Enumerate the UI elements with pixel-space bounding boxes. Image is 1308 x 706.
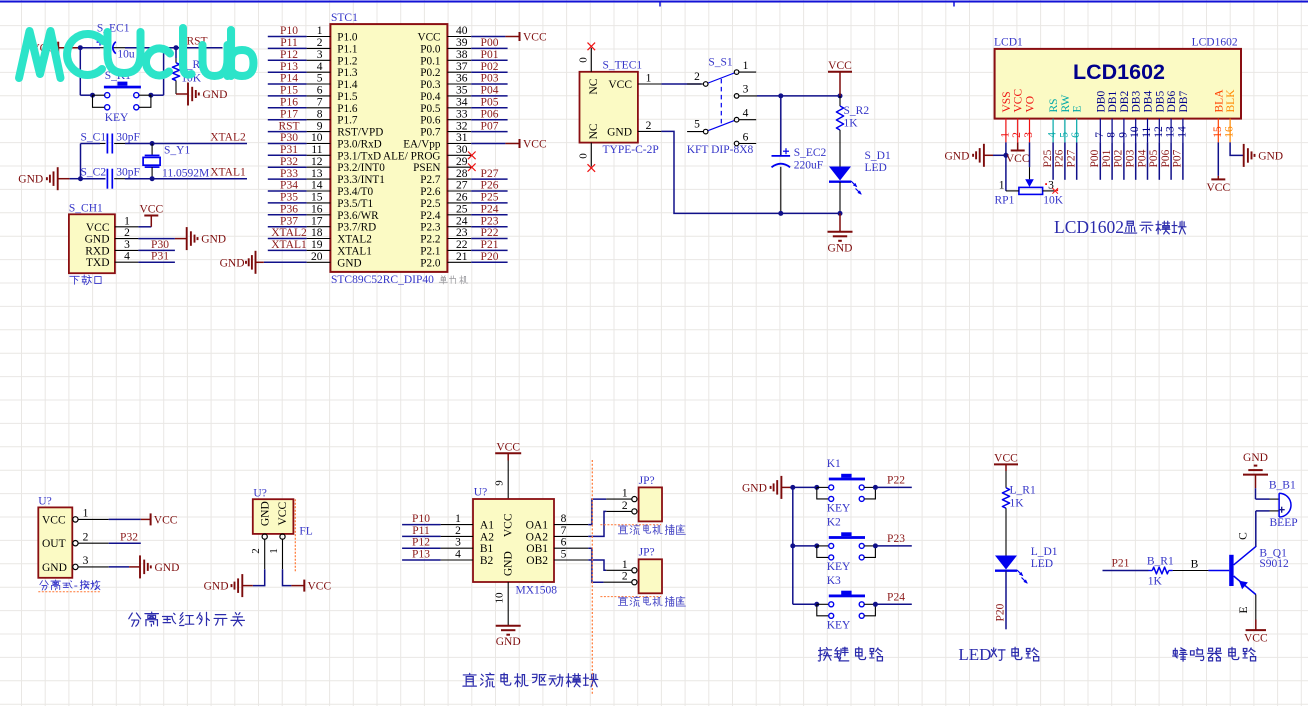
power VCC (FL) <box>283 569 292 585</box>
svg-text:FL: FL <box>299 526 312 538</box>
svg-text:RP1: RP1 <box>995 195 1015 207</box>
svg-text:13: 13 <box>311 168 323 180</box>
svg-text:P2.7: P2.7 <box>420 174 441 186</box>
svg-text:LED: LED <box>958 645 991 664</box>
power VCC (IR) <box>109 518 141 520</box>
svg-text:DB4: DB4 <box>1143 91 1155 113</box>
svg-text:LED: LED <box>1031 558 1053 570</box>
svg-text:6: 6 <box>561 537 567 549</box>
pin 18 STC1 XTAL2 <box>307 238 331 240</box>
ground (STC1 pin20) <box>264 261 307 263</box>
svg-text:VCC: VCC <box>308 581 332 593</box>
svg-text:VCC: VCC <box>523 32 547 44</box>
svg-text:40: 40 <box>456 25 468 37</box>
svg-text:U?: U? <box>253 487 266 499</box>
pin 38 STC1 P0.1 <box>447 59 471 61</box>
svg-text:11.0592M: 11.0592M <box>162 168 209 180</box>
svg-text:P0.6: P0.6 <box>420 115 441 127</box>
svg-text:L_D1: L_D1 <box>1031 546 1058 558</box>
svg-text:S_TEC1: S_TEC1 <box>603 60 643 72</box>
svg-text:BLA: BLA <box>1213 89 1225 113</box>
wire net P23 <box>875 545 911 547</box>
svg-text:BLK: BLK <box>1225 89 1237 113</box>
pin 6 wire S_S1 <box>739 143 756 145</box>
wire net P23 <box>471 226 507 228</box>
svg-text:4: 4 <box>455 549 461 561</box>
svg-text:P2.5: P2.5 <box>420 198 441 210</box>
svg-text:5: 5 <box>694 119 700 131</box>
svg-text:P0.0: P0.0 <box>420 43 441 55</box>
wire net P13 <box>268 71 307 73</box>
pin 6 MX1508 <box>554 547 588 549</box>
svg-text:P36: P36 <box>280 204 298 216</box>
svg-text:1: 1 <box>317 25 323 37</box>
svg-text:P05: P05 <box>1148 149 1160 167</box>
svg-text:GND: GND <box>18 174 43 186</box>
svg-text:P1.4: P1.4 <box>337 79 358 91</box>
svg-text:10u: 10u <box>117 49 134 61</box>
pin 22 STC1 P2.1 <box>447 249 471 251</box>
svg-text:P3.5/T1: P3.5/T1 <box>337 198 373 210</box>
svg-text:2: 2 <box>455 525 461 537</box>
svg-text:10K: 10K <box>1043 195 1064 207</box>
svg-text:VCC: VCC <box>1013 89 1025 113</box>
svg-text:P03: P03 <box>1125 149 1137 167</box>
svg-text:31: 31 <box>456 132 468 144</box>
wire TEC1 to switch <box>661 83 701 85</box>
caption motor driver module <box>463 673 476 686</box>
svg-text:NC: NC <box>588 123 600 139</box>
wire OA2 to JP1-2 <box>588 511 606 536</box>
wire P03 <box>1135 142 1137 179</box>
junction VSS <box>1003 153 1008 158</box>
diode S_D1 LED <box>829 167 851 181</box>
wire net P10 <box>268 36 307 38</box>
svg-text:P24: P24 <box>481 204 499 216</box>
push button S_K1 KEY <box>104 86 141 89</box>
junction cap bottom <box>778 211 783 216</box>
svg-text:GND: GND <box>1243 452 1268 464</box>
svg-text:VCC: VCC <box>608 79 632 91</box>
svg-text:2: 2 <box>83 532 89 544</box>
svg-text:VCC: VCC <box>503 513 515 537</box>
wire net P22 <box>875 486 911 488</box>
svg-text:12: 12 <box>311 156 323 168</box>
switch contact pin 4 <box>734 117 739 122</box>
svg-text:15: 15 <box>311 192 323 204</box>
svg-text:VCC: VCC <box>1006 153 1030 165</box>
pin 24 STC1 P2.3 <box>447 226 471 228</box>
junction RST node <box>174 45 179 50</box>
pin 34 STC1 P0.5 <box>447 107 471 109</box>
power VCC (reset) <box>57 42 59 54</box>
wire net P00 <box>471 47 507 49</box>
svg-text:5: 5 <box>317 73 323 85</box>
junction at S_EC1 left <box>78 45 83 50</box>
label IR-receiver type <box>40 581 48 590</box>
svg-text:10: 10 <box>311 132 323 144</box>
svg-text:4: 4 <box>743 108 749 120</box>
capacitor S_EC2 220uF <box>772 155 791 157</box>
svg-text:VCC: VCC <box>139 204 163 216</box>
no-connect X bottom <box>588 164 596 172</box>
svg-text:P1.7: P1.7 <box>337 115 358 127</box>
svg-text:21: 21 <box>456 251 468 263</box>
wire left leg to key <box>79 48 81 95</box>
svg-text:0: 0 <box>578 153 590 159</box>
wire net P36 <box>268 214 307 216</box>
pin 17 STC1 P3.7/RD <box>307 226 331 228</box>
wire VSS <box>1005 142 1007 191</box>
svg-text:P2.6: P2.6 <box>420 186 441 198</box>
svg-text:GND: GND <box>259 501 271 526</box>
potentiometer RP1 10K <box>1025 179 1034 187</box>
svg-text:S_CH1: S_CH1 <box>69 203 103 215</box>
svg-text:37: 37 <box>456 61 468 73</box>
pin 3 MX1508 <box>441 547 473 549</box>
ground (crystal) <box>57 167 59 190</box>
svg-text:5: 5 <box>561 549 567 561</box>
pin 9 STC1 RST/VPD <box>307 131 331 133</box>
wire net XTAL2 <box>268 238 307 240</box>
svg-text:P3.0/RxD: P3.0/RxD <box>337 139 381 151</box>
wire net P33 <box>268 178 307 180</box>
wire net P16 <box>268 107 307 109</box>
svg-text:3: 3 <box>83 555 89 567</box>
svg-text:P30: P30 <box>151 239 169 251</box>
svg-text:E: E <box>1072 105 1084 112</box>
capacitor S_C1 30pF <box>100 143 106 145</box>
svg-text:19: 19 <box>311 239 323 251</box>
wire P07 <box>1182 142 1184 179</box>
svg-text:S_Y1: S_Y1 <box>164 144 190 156</box>
svg-text:KEY: KEY <box>827 502 851 514</box>
pin 1 S_TEC1 VCC <box>638 83 662 85</box>
svg-text:VO: VO <box>1025 96 1037 113</box>
svg-text:20: 20 <box>311 251 323 263</box>
svg-text:OB1: OB1 <box>526 543 548 555</box>
svg-text:2: 2 <box>694 71 700 83</box>
wire TEC1 gnd run <box>661 131 840 213</box>
svg-text:30: 30 <box>456 144 468 156</box>
svg-text:28: 28 <box>456 168 468 180</box>
svg-text:22: 22 <box>456 239 468 251</box>
svg-text:1: 1 <box>83 508 89 520</box>
svg-text:27: 27 <box>456 180 468 192</box>
svg-text:B_B1: B_B1 <box>1269 479 1296 491</box>
wire P26 <box>1064 142 1066 179</box>
svg-text:L_R1: L_R1 <box>1010 484 1036 496</box>
svg-text:XTAL1: XTAL1 <box>271 239 307 251</box>
label motor socket 2 <box>600 596 661 598</box>
pin 2 JP2 <box>632 580 637 585</box>
wire top XTAL2 run <box>81 143 101 145</box>
svg-text:P06: P06 <box>1160 149 1172 167</box>
svg-text:25: 25 <box>456 204 468 216</box>
svg-text:P04: P04 <box>1136 149 1148 167</box>
pin 1 JP2 <box>632 568 637 573</box>
svg-text:-: - <box>74 580 78 592</box>
junction key left <box>90 93 95 98</box>
svg-text:9: 9 <box>494 480 506 486</box>
svg-text:1: 1 <box>268 548 280 554</box>
wire net P05 <box>471 107 507 109</box>
pin 14 STC1 P3.4/T0 <box>307 190 331 192</box>
svg-text:RST/VPD: RST/VPD <box>337 127 383 139</box>
svg-text:1: 1 <box>999 179 1005 191</box>
wire net P13 <box>402 559 441 561</box>
svg-text:P12: P12 <box>412 537 430 549</box>
svg-text:P32: P32 <box>280 156 298 168</box>
wire net P12 <box>402 547 441 549</box>
wire net P11 <box>402 535 441 537</box>
svg-text:P0.7: P0.7 <box>420 127 441 139</box>
pin 25 STC1 P2.4 <box>447 214 471 216</box>
svg-text:P20: P20 <box>994 603 1006 621</box>
svg-text:DB7: DB7 <box>1178 91 1190 113</box>
power VCC (S_CH1) <box>138 226 151 228</box>
svg-text:3: 3 <box>317 49 323 61</box>
svg-text:1: 1 <box>743 60 749 72</box>
crystal S_Y1 11.0592M <box>151 144 153 156</box>
pin 37 STC1 P0.2 <box>447 71 471 73</box>
resistor B_R1 1K <box>1149 570 1153 572</box>
svg-text:RW: RW <box>1060 94 1072 112</box>
base pin <box>1208 570 1229 572</box>
svg-text:P2.1: P2.1 <box>420 245 440 257</box>
pin 20 STC1 GND <box>307 261 331 263</box>
svg-text:GND: GND <box>944 150 969 162</box>
svg-text:P31: P31 <box>151 251 169 263</box>
pin 3 IR receiver <box>73 564 78 569</box>
svg-text:3: 3 <box>124 239 130 251</box>
orange partition line <box>591 460 593 695</box>
svg-text:P01: P01 <box>1101 149 1113 167</box>
svg-text:1: 1 <box>622 559 628 571</box>
svg-text:GND: GND <box>1258 150 1283 162</box>
svg-text:K3: K3 <box>827 575 841 587</box>
switch lever 5-4 <box>708 121 734 131</box>
svg-text:VCC: VCC <box>828 60 852 72</box>
pin 3 STC1 P1.2 <box>307 59 331 61</box>
svg-text:E: E <box>1238 606 1250 613</box>
connector S_CH1 download port <box>69 214 115 273</box>
pin 1 JP1 <box>632 497 637 502</box>
wire net P11 <box>268 47 307 49</box>
pin 31 STC1 EA/Vpp <box>447 143 471 145</box>
wire P06 <box>1170 142 1172 179</box>
resistor S_R2 1K <box>839 96 841 106</box>
svg-text:P23: P23 <box>481 215 499 227</box>
svg-text:2: 2 <box>250 548 262 554</box>
ground (IR) <box>109 566 129 568</box>
svg-text:OA2: OA2 <box>526 531 549 543</box>
wire cap riser <box>780 96 782 155</box>
wire net P03 <box>471 83 507 85</box>
svg-text:P3.3/INT1: P3.3/INT1 <box>337 174 385 186</box>
wire net P07 <box>471 131 507 133</box>
svg-text:B1: B1 <box>480 543 494 555</box>
wire net P32 <box>268 166 307 168</box>
pin 5 MX1508 <box>554 559 588 561</box>
svg-text:ALE/ PROG: ALE/ PROG <box>383 150 441 162</box>
svg-text:7: 7 <box>317 97 323 109</box>
svg-text:STC89C52RC_DIP40: STC89C52RC_DIP40 <box>331 274 434 286</box>
svg-text:P32: P32 <box>120 532 138 544</box>
svg-text:B_R1: B_R1 <box>1147 555 1174 567</box>
resistor L_R1 1K <box>1005 471 1007 488</box>
svg-text:33: 33 <box>456 108 468 120</box>
pin 4 STC1 P1.3 <box>307 71 331 73</box>
wire OA1 to JP1-1 <box>588 499 606 524</box>
wire keys gnd rail <box>792 487 794 604</box>
svg-text:6: 6 <box>743 131 749 143</box>
wire net P27 <box>471 178 507 180</box>
orange marker line FL <box>294 499 296 573</box>
pin 13 STC1 P3.3/INT1 <box>307 178 331 180</box>
svg-text:B2: B2 <box>480 555 494 567</box>
switch contact pin 1 <box>734 70 739 75</box>
ground (LCD VSS) <box>993 154 1006 156</box>
pin 10 MX1508 GND <box>507 582 509 626</box>
svg-text:7: 7 <box>561 525 567 537</box>
pin 29 STC1 PSEN <box>447 166 471 168</box>
pin 32 STC1 P0.7 <box>447 131 471 133</box>
svg-text:9: 9 <box>317 120 323 132</box>
svg-text:U?: U? <box>474 487 487 499</box>
svg-text:14: 14 <box>311 180 323 192</box>
svg-text:VCC: VCC <box>277 502 289 526</box>
pin 11 STC1 P3.1/TxD <box>307 154 331 156</box>
svg-text:26: 26 <box>456 192 468 204</box>
pin 21 STC1 P2.0 <box>447 261 471 263</box>
no-connect X <box>468 152 476 160</box>
pin 4 MX1508 <box>441 559 473 561</box>
svg-text:XTAL1: XTAL1 <box>337 245 372 257</box>
pin 9 MX1508 VCC <box>507 461 509 500</box>
connector S_TEC1 TYPE-C-2P body <box>580 72 638 143</box>
svg-text:A1: A1 <box>480 520 494 532</box>
svg-text:LED: LED <box>865 162 887 174</box>
svg-text:1: 1 <box>622 488 628 500</box>
svg-text:P0.3: P0.3 <box>420 79 441 91</box>
wire P25 <box>1052 142 1054 179</box>
pin 0 top S_TEC1 <box>590 48 592 72</box>
svg-text:NC: NC <box>588 78 600 94</box>
svg-text:P13: P13 <box>280 61 298 73</box>
power VCC (MX1508) <box>495 452 521 454</box>
wire P00 <box>1099 142 1101 179</box>
wire net P01 <box>471 59 507 61</box>
svg-text:P22: P22 <box>481 227 499 239</box>
svg-text:VSS: VSS <box>1001 91 1013 112</box>
svg-text:P24: P24 <box>887 592 905 604</box>
pin 1 STC1 P1.0 <box>307 36 331 38</box>
pin 1 IR receiver <box>73 517 78 522</box>
svg-text:VCC: VCC <box>523 139 547 151</box>
svg-text:35: 35 <box>456 85 468 97</box>
svg-text:P1.1: P1.1 <box>337 43 357 55</box>
wire OB1 to JP2-2 <box>588 548 603 582</box>
svg-text:P1.5: P1.5 <box>337 91 358 103</box>
svg-text:P14: P14 <box>280 73 298 85</box>
svg-text:LCD1: LCD1 <box>994 37 1023 49</box>
svg-text:2: 2 <box>317 37 323 49</box>
junction R2 top <box>838 93 843 98</box>
power VCC (STC1) <box>471 36 505 38</box>
svg-text:TYPE-C-2P: TYPE-C-2P <box>603 144 659 156</box>
wire LED to gnd rail <box>839 182 841 213</box>
svg-text:P11: P11 <box>280 37 298 49</box>
watermark MCUclub <box>19 28 254 78</box>
wire P30 <box>138 249 175 251</box>
svg-text:KFT DIP-8X8: KFT DIP-8X8 <box>687 144 754 156</box>
ground (LCD BLK) <box>1230 142 1244 155</box>
svg-text:P3.7/RD: P3.7/RD <box>337 222 376 234</box>
svg-text:P33: P33 <box>280 168 298 180</box>
svg-text:P1.2: P1.2 <box>337 55 357 67</box>
svg-text:29: 29 <box>456 156 468 168</box>
wire net P37 <box>268 226 307 228</box>
power VCC (LED circuit) <box>994 463 1018 465</box>
svg-text:GND: GND <box>496 636 521 648</box>
wire net P20 <box>1005 571 1007 630</box>
ground (reset) <box>176 93 188 95</box>
svg-text:P26: P26 <box>481 180 499 192</box>
no-connect X top <box>588 43 596 51</box>
pin 8 MX1508 <box>554 524 588 526</box>
power VCC (LCD pin2) <box>1017 142 1019 150</box>
svg-text:1K: 1K <box>1148 575 1163 587</box>
pin 2 S_TEC1 GND <box>638 130 662 132</box>
svg-text:GND: GND <box>220 257 245 269</box>
pin 26 STC1 P2.5 <box>447 202 471 204</box>
caption buzzer circuit <box>1173 648 1187 661</box>
wire C1 to crystal node <box>125 143 152 145</box>
wire P27 <box>1076 142 1078 179</box>
wire net P10 <box>402 524 441 526</box>
pin 2 wire S_S1 <box>687 83 703 85</box>
svg-text:B: B <box>1191 558 1199 570</box>
svg-text:LCD1602: LCD1602 <box>1073 60 1165 84</box>
junction key right <box>148 93 153 98</box>
pin 6 STC1 P1.5 <box>307 95 331 97</box>
pin 2 MX1508 <box>441 535 473 537</box>
svg-text:GND: GND <box>85 234 110 246</box>
junction crystal bottom <box>150 176 155 181</box>
svg-text:S_C2: S_C2 <box>81 167 107 179</box>
wire net P30 <box>268 143 307 145</box>
svg-text:3: 3 <box>743 84 749 96</box>
wire XTAL2 <box>152 143 247 145</box>
wire net P22 <box>471 238 507 240</box>
svg-text:2: 2 <box>124 227 130 239</box>
svg-text:P01: P01 <box>481 49 499 61</box>
pin 1 S_CH1 <box>115 226 138 228</box>
svg-text:XTAL1: XTAL1 <box>210 167 246 179</box>
switch lever 2-1 <box>708 73 734 83</box>
pin 19 STC1 XTAL1 <box>307 249 331 251</box>
wire net RST <box>268 131 307 133</box>
pin 4 S_CH1 <box>115 261 138 263</box>
ground (FL) <box>253 569 265 585</box>
svg-text:P15: P15 <box>280 85 298 97</box>
svg-text:P27: P27 <box>481 168 499 180</box>
svg-text:36: 36 <box>456 73 468 85</box>
pin 7 STC1 P1.6 <box>307 107 331 109</box>
transistor B_Q1 S9012 <box>1229 555 1233 586</box>
svg-text:P21: P21 <box>1111 558 1129 570</box>
